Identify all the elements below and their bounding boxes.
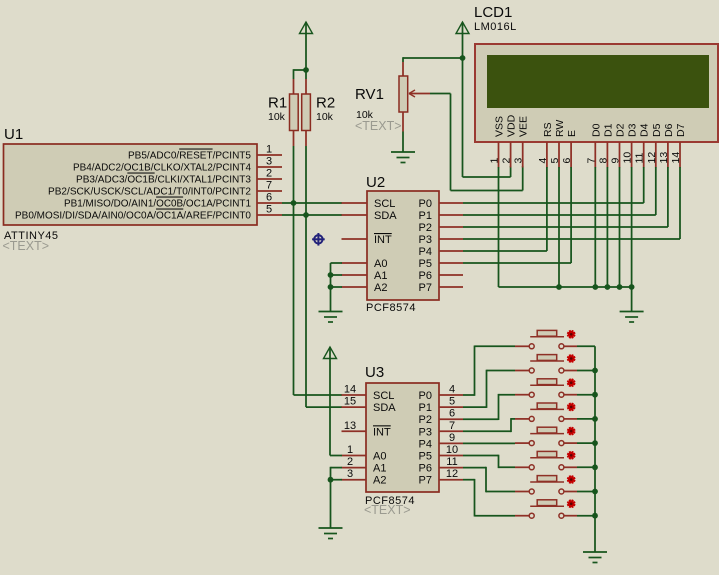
potentiometer RV1 top pin: [402, 62, 404, 76]
U3 pin 2 (A1) stub: [342, 467, 367, 469]
wire U2 A1 to ground column: [331, 274, 343, 276]
wire SCL net: U1 pin6 to U2 SCL: [282, 202, 342, 204]
svg-text:6: 6: [449, 408, 455, 420]
wire SCL net: R1 bottom down to U1 pin6 row: [293, 146, 295, 203]
svg-text:P4: P4: [419, 246, 432, 258]
U3 pin 12 (P7) stub: [439, 479, 463, 481]
svg-text:2: 2: [501, 158, 513, 164]
pushbutton 5 right terminal: [559, 441, 564, 446]
pushbutton 2 right pin: [564, 370, 577, 372]
power VCC arrow (above LCD): [456, 22, 469, 34]
pushbutton 4 left terminal: [529, 416, 534, 421]
pushbutton 7 bar: [530, 481, 564, 483]
pushbutton 6 right terminal: [559, 465, 564, 470]
pushbutton 7 actuator: [568, 476, 575, 483]
node junction U2 A2: [328, 284, 334, 290]
wire buttons ground rail: [594, 346, 596, 552]
wire junction to R2 top: [305, 70, 307, 79]
pushbutton 8 right terminal: [559, 513, 564, 518]
wire U3 P0 to button 1: [463, 394, 475, 396]
svg-text:6: 6: [561, 158, 573, 164]
svg-text:6: 6: [266, 192, 272, 204]
svg-text:5: 5: [266, 204, 272, 216]
wire VCC arrow down to junction: [462, 22, 464, 58]
pushbutton 3 cap: [537, 379, 557, 385]
ground symbol below U2 address pins: [319, 311, 343, 313]
svg-text:15: 15: [344, 396, 356, 408]
wire D4: LCD pin11 down to U2 P0: [643, 167, 645, 203]
svg-text:P2: P2: [419, 414, 432, 426]
svg-text:10k: 10k: [268, 111, 286, 123]
wire D1: LCD pin8 down to ground bus: [606, 167, 608, 287]
potentiometer RV1 body: [399, 76, 408, 112]
pushbutton 2 cap: [537, 355, 557, 361]
U3 pin 1 (A0) stub: [342, 455, 367, 457]
wire U3 P2 to button 3: [463, 418, 499, 420]
svg-text:PB5/ADC0/RESET/PCINT5: PB5/ADC0/RESET/PCINT5: [128, 150, 251, 162]
svg-text:5: 5: [449, 396, 455, 408]
node junction ground rail button 8: [592, 513, 598, 519]
svg-text:SCL: SCL: [373, 390, 394, 402]
LCD pin 2 (VDD) stub: [510, 142, 512, 168]
origin marker (blue): [312, 233, 325, 246]
LCD pin 10 (D3) stub: [631, 142, 633, 168]
U2 pin A0 stub: [342, 262, 368, 264]
wire U3 P4 to button 5: [463, 442, 515, 444]
svg-text:D2: D2: [615, 123, 627, 137]
pushbutton 2 left pin: [515, 370, 529, 372]
node junction ground bus pin7: [592, 284, 598, 290]
svg-text:P3: P3: [419, 234, 432, 246]
wire D5: LCD pin12 down to U2 P1: [655, 167, 657, 215]
pushbutton 1 actuator: [568, 331, 575, 338]
wire VSS (LCD pin1) down to ground bus: [498, 167, 500, 287]
resistor R2 body: [302, 94, 311, 131]
pushbutton 4 cap: [537, 403, 557, 409]
wire U3 P1 to button 2: [463, 406, 487, 408]
svg-text:SCL: SCL: [374, 198, 395, 210]
svg-text:11: 11: [634, 152, 646, 163]
U2 pin INT stub: [342, 238, 368, 240]
potentiometer RV1 wiper arrow: [409, 90, 415, 97]
svg-text:3: 3: [266, 156, 272, 168]
ground symbol below RV1: [391, 151, 415, 153]
svg-text:A0: A0: [373, 451, 386, 463]
U3 pin 13 (INT) stub: [342, 430, 367, 432]
wire U3 A1 to ground column: [331, 467, 343, 469]
wire U2 A0 to ground column: [331, 262, 343, 264]
U1 pin 6 stub: [257, 202, 282, 204]
svg-text:PB2/SCK/USCK/SCL/ADC1/T0/INT0/: PB2/SCK/USCK/SCL/ADC1/T0/INT0/PCINT2: [48, 186, 251, 198]
svg-text:P3: P3: [419, 426, 432, 438]
pushbutton 6 bar: [530, 457, 564, 459]
LCD pin 7 (D0) stub: [594, 142, 596, 168]
wire U3 P5 to button 6: [463, 455, 499, 457]
svg-text:12: 12: [646, 152, 658, 164]
svg-text:A2: A2: [373, 475, 386, 487]
ground symbol below buttons: [583, 551, 607, 553]
LCD pin 9 (D2) stub: [619, 142, 621, 168]
U3 pin 14 (SCL) stub: [342, 394, 367, 396]
pushbutton 8 bar: [530, 505, 564, 507]
wire SDA net: U1 pin5 to U2 SDA: [282, 214, 342, 216]
wire VDD: junction down then right to LCD pin2: [462, 58, 464, 177]
U3 pin 10 (P5) stub: [439, 455, 463, 457]
U3 pin 7 (P3) stub: [439, 430, 463, 432]
U3 pin 9 (P4) stub: [439, 442, 463, 444]
svg-text:<TEXT>: <TEXT>: [355, 119, 402, 133]
svg-text:RW: RW: [554, 120, 566, 137]
node junction ground bus pin5: [556, 284, 562, 290]
node junction ground rail button 5: [592, 440, 598, 446]
svg-text:P2: P2: [419, 222, 432, 234]
U2 pin P1 stub: [439, 214, 463, 216]
pushbutton 6 left terminal: [529, 465, 534, 470]
wire button 6 to ground rail: [577, 466, 595, 468]
svg-text:14: 14: [344, 384, 356, 396]
wire VCC arrow down to junction: [305, 22, 307, 70]
svg-text:P6: P6: [419, 463, 432, 475]
wire button 4 to ground rail: [577, 418, 595, 420]
wire VEE: RV1 wiper to LCD pin3: [430, 93, 451, 95]
wire SDA net: down to U3 SDA row: [305, 215, 307, 407]
svg-text:7: 7: [266, 180, 272, 192]
node junction ground bus pin8: [605, 284, 611, 290]
svg-text:12: 12: [446, 468, 458, 480]
svg-text:RS: RS: [542, 122, 554, 137]
svg-text:P1: P1: [419, 402, 432, 414]
node junction SDA at R2 column: [303, 212, 309, 218]
svg-text:A2: A2: [374, 282, 387, 294]
svg-text:D6: D6: [663, 123, 675, 137]
wire D0: LCD pin7 down to ground bus: [594, 167, 596, 287]
U3 pin 3 (A2) stub: [342, 479, 367, 481]
svg-text:VSS: VSS: [494, 116, 506, 137]
wire RW: LCD pin5 down to ground bus: [558, 167, 560, 287]
svg-text:P5: P5: [419, 258, 432, 270]
svg-text:P6: P6: [419, 270, 432, 282]
U2 pin A1 stub: [342, 274, 368, 276]
U2 pin SDA stub: [342, 214, 368, 216]
node junction VCC/R1/R2: [303, 67, 309, 73]
svg-text:A0: A0: [374, 258, 387, 270]
U1 pin 3 stub: [257, 166, 282, 168]
wire button 1 to ground rail: [577, 345, 595, 347]
pushbutton 7 right terminal: [559, 489, 564, 494]
pushbutton 4 right pin: [564, 418, 577, 420]
LCD pin 11 (D4) stub: [643, 142, 645, 168]
svg-text:LM016L: LM016L: [474, 21, 517, 33]
svg-text:PB0/MOSI/DI/SDA/AIN0/OC0A/OC1A: PB0/MOSI/DI/SDA/AIN0/OC0A/OC1A/AREF/PCIN…: [15, 210, 251, 222]
pushbutton 5 cap: [537, 427, 557, 433]
svg-text:8: 8: [597, 158, 609, 164]
resistor R2 bottom pin: [305, 131, 307, 147]
pushbutton 6 left pin: [515, 466, 529, 468]
svg-text:10k: 10k: [316, 111, 334, 123]
IC U1 ATTINY45 body: [4, 144, 258, 225]
resistor R2 top pin: [305, 79, 307, 94]
pushbutton 4 left pin: [515, 418, 529, 420]
resistor R1 body: [290, 94, 299, 131]
potentiometer RV1 bottom pin: [402, 112, 404, 132]
pushbutton 6 cap: [537, 451, 557, 457]
node junction ground rail button 3: [592, 392, 598, 398]
wire button 2 to ground rail: [577, 370, 595, 372]
wire SDA net: into U3 SDA: [306, 406, 342, 408]
svg-text:R1: R1: [268, 95, 287, 112]
pushbutton 2 bar: [530, 360, 564, 362]
pushbutton 8 left pin: [515, 515, 529, 517]
power VCC arrow for U3 A0: [324, 347, 337, 359]
wire D7: LCD pin14 down to U2 P3: [679, 167, 681, 239]
U3 pin 15 (SDA) stub: [342, 406, 367, 408]
svg-text:1: 1: [489, 158, 501, 164]
node junction VCC/RV1/VDD: [460, 55, 466, 61]
pushbutton 8 right pin: [564, 515, 577, 517]
pushbutton 1 right terminal: [559, 344, 564, 349]
wire junction to RV1 top: [403, 57, 463, 59]
pushbutton 4 right terminal: [559, 416, 564, 421]
pushbutton 2 left terminal: [529, 368, 534, 373]
svg-text:13: 13: [344, 420, 356, 432]
ground symbol below LCD bus: [620, 311, 644, 313]
wire ground bus under LCD: [499, 286, 632, 288]
U3 pin 5 (P1) stub: [439, 406, 463, 408]
svg-text:P0: P0: [419, 390, 432, 402]
wire button 8 to ground rail: [577, 515, 595, 517]
svg-text:<TEXT>: <TEXT>: [3, 239, 50, 253]
node junction ground rail button 4: [592, 416, 598, 422]
pushbutton 8 left terminal: [529, 513, 534, 518]
svg-text:A1: A1: [373, 463, 386, 475]
svg-text:4: 4: [537, 158, 549, 164]
wire E: LCD pin6 down to U2 P5 row: [570, 167, 572, 263]
LCD screen area: [487, 55, 709, 108]
svg-text:3: 3: [347, 468, 353, 480]
LCD pin 12 (D5) stub: [655, 142, 657, 168]
svg-text:D4: D4: [639, 123, 651, 137]
svg-text:D1: D1: [602, 123, 614, 137]
wire RV1 bottom to ground: [402, 132, 404, 153]
pushbutton 1 right pin: [564, 345, 577, 347]
svg-text:9: 9: [449, 432, 455, 444]
svg-text:2: 2: [266, 168, 272, 180]
potentiometer RV1 wiper pin: [409, 93, 430, 95]
wire button 5 to ground rail: [577, 442, 595, 444]
svg-text:P1: P1: [419, 210, 432, 222]
U2 pin SCL stub: [342, 202, 368, 204]
svg-text:PB4/ADC2/OC1B/CLKO/XTAL2/PCINT: PB4/ADC2/OC1B/CLKO/XTAL2/PCINT4: [73, 162, 251, 174]
node junction SCL at R1 column: [291, 200, 297, 206]
pushbutton 3 right terminal: [559, 392, 564, 397]
wire U2 address ground column: [330, 263, 332, 312]
wire U3 A2 to ground column: [331, 479, 343, 481]
svg-text:INT: INT: [373, 426, 391, 438]
svg-text:D7: D7: [675, 123, 687, 137]
wire D2: LCD pin9 down to ground bus: [619, 167, 621, 287]
wire button 3 to ground rail: [577, 394, 595, 396]
wire U3 P6 to button 7: [463, 467, 486, 469]
wire D6: LCD pin13 down to U2 P2: [667, 167, 669, 227]
svg-text:PB1/MISO/DO/AIN1/OC0B/OC1A/PCI: PB1/MISO/DO/AIN1/OC0B/OC1A/PCINT1: [64, 198, 251, 210]
svg-text:11: 11: [446, 456, 457, 468]
node junction ground rail button 7: [592, 489, 598, 495]
wire bus down to ground: [631, 287, 633, 312]
svg-text:SDA: SDA: [373, 402, 396, 414]
node junction ground bus pin9: [617, 284, 623, 290]
pushbutton 3 actuator: [568, 379, 575, 386]
pushbutton 1 left terminal: [529, 344, 534, 349]
pushbutton 1 bar: [530, 336, 564, 338]
U3 pin 4 (P0) stub: [439, 394, 463, 396]
U3 pin 11 (P6) stub: [439, 467, 463, 469]
svg-text:7: 7: [585, 158, 597, 164]
svg-text:1: 1: [266, 144, 272, 156]
wire U3 P3 to button 4: [463, 430, 511, 432]
pushbutton 4 actuator: [568, 404, 575, 411]
svg-text:PB3/ADC3/OC1B/CLKI/XTAL1/PCINT: PB3/ADC3/OC1B/CLKI/XTAL1/PCINT3: [76, 174, 251, 186]
resistor R1 top pin: [293, 79, 295, 94]
pushbutton 7 left pin: [515, 491, 529, 493]
svg-text:E: E: [566, 130, 578, 137]
pushbutton 5 left pin: [515, 442, 529, 444]
IC U3 PCF8574 body: [366, 383, 439, 492]
U2 pin P0 stub: [439, 202, 463, 204]
pushbutton 5 actuator: [568, 428, 575, 435]
node junction U3 A2: [328, 477, 334, 483]
svg-text:3: 3: [513, 158, 525, 164]
pushbutton 2 right terminal: [559, 368, 564, 373]
svg-text:13: 13: [658, 152, 670, 164]
pushbutton 4 bar: [530, 408, 564, 410]
svg-text:U3: U3: [365, 364, 384, 381]
pushbutton 8 actuator: [568, 500, 575, 507]
wire SCL net: down to U3 SCL row: [293, 203, 295, 395]
LCD pin 6 (E) stub: [570, 142, 572, 168]
svg-text:U1: U1: [4, 126, 23, 143]
svg-text:2: 2: [347, 456, 353, 468]
pushbutton 3 bar: [530, 384, 564, 386]
svg-text:P0: P0: [419, 198, 432, 210]
pushbutton 3 right pin: [564, 394, 577, 396]
U3 pin 6 (P2) stub: [439, 418, 463, 420]
wire junction to R1 top: [294, 69, 307, 71]
svg-text:P7: P7: [419, 282, 432, 294]
wire U3 address ground column: [330, 480, 332, 528]
wire U2 A2 to ground column: [331, 286, 343, 288]
pushbutton 1 cap: [537, 330, 557, 336]
LCD pin 4 (RS) stub: [546, 142, 548, 168]
svg-text:VEE: VEE: [518, 116, 530, 137]
svg-text:LCD1: LCD1: [474, 4, 512, 21]
resistor R1 bottom pin: [293, 131, 295, 147]
wire VCC down to U3 A0: [329, 347, 331, 456]
pushbutton 6 actuator: [568, 452, 575, 459]
LCD pin 1 (VSS) stub: [498, 142, 500, 168]
LCD pin 5 (RW) stub: [558, 142, 560, 168]
pushbutton 2 actuator: [568, 355, 575, 362]
pushbutton 7 cap: [537, 476, 557, 482]
LCD LCD1 LM016L body: [475, 44, 718, 142]
svg-text:14: 14: [670, 152, 682, 164]
U1 pin 1 stub: [257, 154, 282, 156]
svg-text:A1: A1: [374, 270, 387, 282]
svg-text:R2: R2: [316, 95, 335, 112]
svg-text:D0: D0: [590, 123, 602, 137]
node junction U2 A1: [328, 272, 334, 278]
LCD pin 14 (D7) stub: [679, 142, 681, 168]
U1 pin 7 stub: [257, 190, 282, 192]
LCD pin 8 (D1) stub: [606, 142, 608, 168]
pushbutton 5 right pin: [564, 442, 577, 444]
pushbutton 8 cap: [537, 500, 557, 506]
node junction ground rail button 2: [592, 368, 598, 374]
svg-text:PCF8574: PCF8574: [366, 302, 416, 314]
wire D3: LCD pin10 down to ground bus: [631, 167, 633, 287]
svg-text:VDD: VDD: [506, 114, 518, 137]
svg-text:P4: P4: [419, 438, 432, 450]
U2 pin P7 stub: [439, 286, 463, 288]
U2 pin P2 stub: [439, 226, 463, 228]
svg-text:SDA: SDA: [374, 210, 397, 222]
pushbutton 5 left terminal: [529, 441, 534, 446]
svg-text:10: 10: [446, 444, 458, 456]
LCD pin 13 (D6) stub: [667, 142, 669, 168]
svg-text:7: 7: [449, 420, 455, 432]
U2 pin P5 stub: [439, 262, 463, 264]
svg-text:5: 5: [549, 158, 561, 164]
wire button 7 to ground rail: [577, 491, 595, 493]
U1 pin 2 stub: [257, 178, 282, 180]
svg-text:D5: D5: [651, 123, 663, 137]
svg-text:INT: INT: [374, 234, 392, 246]
ground symbol below U3 address pins: [319, 527, 343, 529]
svg-text:RV1: RV1: [355, 86, 384, 103]
node junction ground rail button 6: [592, 464, 598, 470]
svg-text:P5: P5: [419, 451, 432, 463]
wire RS: LCD pin4 down to U2 P4 row: [546, 167, 548, 251]
U2 pin A2 stub: [342, 286, 368, 288]
svg-text:1: 1: [347, 444, 353, 456]
svg-text:<TEXT>: <TEXT>: [364, 503, 411, 517]
wire SCL net: into U3 SCL: [294, 394, 343, 396]
svg-text:10: 10: [622, 152, 634, 164]
pushbutton 1 left pin: [515, 345, 529, 347]
U2 pin P4 stub: [439, 250, 463, 252]
wire U3 P7 to button 8: [463, 479, 475, 481]
pushbutton 7 left terminal: [529, 489, 534, 494]
svg-text:4: 4: [449, 384, 455, 396]
U2 pin P3 stub: [439, 238, 463, 240]
U2 pin P6 stub: [439, 274, 463, 276]
power VCC arrow (top, feeds R1/R2): [300, 22, 313, 34]
pushbutton 7 right pin: [564, 491, 577, 493]
IC U2 PCF8574 body: [367, 191, 439, 300]
svg-text:9: 9: [610, 158, 622, 164]
LCD pin 3 (VEE) stub: [522, 142, 524, 168]
svg-text:D3: D3: [627, 123, 639, 137]
wire SDA net: R2 bottom down to U1 pin5 row: [305, 146, 307, 215]
node junction ground bus pin10: [629, 284, 635, 290]
svg-text:P7: P7: [419, 475, 432, 487]
pushbutton 5 bar: [530, 433, 564, 435]
svg-text:U2: U2: [366, 174, 385, 191]
pushbutton 3 left pin: [515, 394, 529, 396]
pushbutton 3 left terminal: [529, 392, 534, 397]
U1 pin 5 stub: [257, 214, 282, 216]
pushbutton 6 right pin: [564, 466, 577, 468]
